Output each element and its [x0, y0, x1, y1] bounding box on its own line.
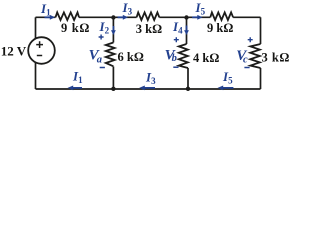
node dot A top — [111, 15, 115, 19]
svg-text:4 kΩ: 4 kΩ — [193, 51, 219, 65]
wire top rail segment 2 — [79, 16, 137, 18]
minus sign Vc — [244, 67, 249, 69]
wire right branch top — [260, 17, 262, 44]
current arrow I1 top (right) — [45, 16, 51, 18]
plus sign Vb — [174, 37, 179, 42]
svg-text:3 kΩ: 3 kΩ — [262, 51, 290, 65]
voltage source V1 12V circle — [28, 37, 55, 64]
wire branch B bottom stub — [187, 68, 189, 89]
wire top rail segment 3 — [159, 16, 210, 18]
current arrow I3 top (right) — [118, 16, 123, 18]
resistor R6 3k (vertical right branch) — [250, 44, 260, 68]
node dot B bottom — [186, 87, 190, 91]
svg-text:3 kΩ: 3 kΩ — [136, 22, 162, 36]
node dot B top — [184, 15, 188, 19]
wire branch A bottom stub — [112, 67, 114, 90]
svg-text:12 V: 12 V — [1, 44, 27, 59]
plus sign Va — [99, 35, 104, 40]
current arrow I5 bottom (left) — [223, 87, 233, 89]
plus sign Vc — [248, 37, 253, 42]
wire top rail segment 1 — [36, 16, 56, 18]
current arrow I3 bottom (left) — [145, 87, 156, 89]
resistor R1 9k (top left horizontal) — [56, 12, 80, 20]
svg-text:b: b — [172, 53, 177, 64]
svg-text:c: c — [243, 55, 248, 66]
wire bottom rail — [36, 88, 261, 90]
node dot A bottom — [111, 87, 115, 91]
svg-text:9 kΩ: 9 kΩ — [61, 21, 90, 35]
svg-text:a: a — [97, 55, 102, 66]
current arrow I2 down (branch A) — [112, 26, 114, 31]
resistor R3 9k (top right horizontal) — [210, 12, 233, 20]
svg-text:6 kΩ: 6 kΩ — [118, 50, 144, 64]
resistor R2 3k (top middle horizontal) — [137, 12, 160, 20]
source minus sign — [37, 55, 42, 57]
current arrow I4 down (branch B) — [186, 26, 188, 31]
wire left branch bottom — [35, 62, 37, 89]
wire top rail segment 4 — [233, 16, 260, 18]
svg-text:9 kΩ: 9 kΩ — [207, 21, 233, 35]
current arrow I5 top (right) — [192, 16, 197, 18]
wire branch A top stub — [112, 17, 114, 42]
current arrow I1 bottom (left) — [73, 87, 82, 89]
source plus sign — [36, 41, 43, 48]
minus sign Vb — [173, 66, 178, 68]
wire left branch top — [35, 17, 37, 38]
minus sign Va — [100, 67, 105, 69]
resistor R5 4k (vertical branch B) — [179, 44, 188, 68]
resistor R4 6k (vertical branch A) — [106, 43, 115, 67]
wire branch B top stub — [186, 17, 188, 44]
wire right branch bottom — [260, 68, 262, 89]
